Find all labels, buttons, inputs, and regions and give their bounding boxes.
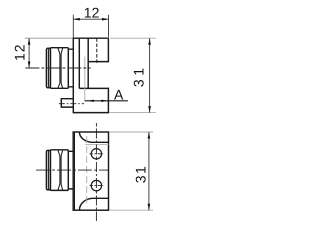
tab center line (top view) <box>59 103 84 105</box>
plate outline (bottom view) <box>73 132 108 210</box>
hidden line in body (top view) <box>96 38 98 64</box>
knob V-groove (top view) <box>58 48 63 88</box>
svg-text:12: 12 <box>11 43 27 61</box>
knob cap (bottom view) <box>46 150 50 190</box>
thin gray vertical (top view) <box>84 57 86 101</box>
dimension 12 (left, vertical) <box>25 37 73 39</box>
hole 2 tick <box>90 185 104 187</box>
svg-text:12: 12 <box>84 4 100 20</box>
knob V-groove (bottom view) <box>58 150 63 190</box>
knob cap inner line (bottom view) <box>47 151 49 190</box>
plate left edge inner line (bottom view) <box>74 132 76 210</box>
knob center line (bottom view) <box>36 169 109 171</box>
hidden gray dashed line (bottom view) <box>86 136 88 204</box>
knob cap (top view) <box>46 48 50 88</box>
hole 1 <box>91 149 101 159</box>
knob neck (bottom view) <box>68 151 73 189</box>
dimension 31 (top view, right) <box>110 37 156 39</box>
dimension 31 (bottom view, right) <box>109 131 153 133</box>
knob cap inner line (top view) <box>47 49 49 88</box>
bottom-left arc (bottom view) <box>79 198 108 210</box>
thin gray line under boss edge (bottom view) <box>86 143 109 145</box>
hole 2 <box>91 180 101 190</box>
knob center line (top view) <box>25 67 90 69</box>
dimension 12 (top) <box>73 15 108 38</box>
knob ribs block (bottom view) <box>50 150 68 191</box>
top-left arc (bottom view) <box>79 132 108 142</box>
holes axis center line (bottom view) <box>95 123 97 221</box>
tab on left side of body (top view) <box>61 99 73 107</box>
view arrow A (top view) <box>85 100 128 102</box>
svg-text:A: A <box>114 87 124 103</box>
svg-text:31: 31 <box>130 65 146 88</box>
body outline (top view) <box>73 38 108 112</box>
knob ribs block (top view) <box>50 48 68 89</box>
hole 1 tick <box>90 153 104 155</box>
svg-text:31: 31 <box>133 165 149 184</box>
knob neck (top view) <box>68 49 73 87</box>
